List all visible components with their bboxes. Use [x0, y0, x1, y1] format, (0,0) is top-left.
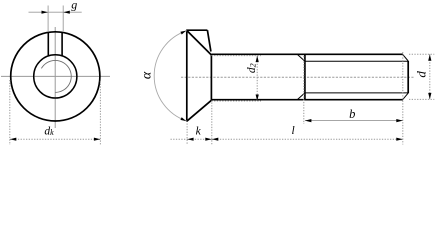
svg-text:α: α	[139, 71, 154, 79]
svg-text:k: k	[196, 125, 202, 137]
svg-text:b: b	[349, 107, 355, 121]
svg-text:g: g	[71, 0, 77, 11]
svg-text:l: l	[291, 125, 294, 137]
svg-text:d: d	[414, 71, 429, 78]
